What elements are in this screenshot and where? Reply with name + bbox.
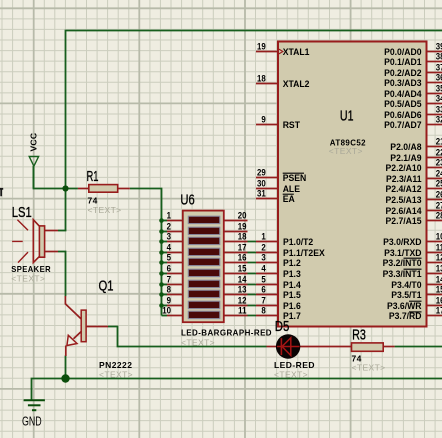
svg-text:P1.2: P1.2 (283, 258, 301, 268)
bargraph U6 pin 10 (162, 305, 184, 316)
svg-text:28: 28 (436, 210, 442, 221)
svg-text:34: 34 (436, 93, 442, 104)
svg-text:18: 18 (238, 231, 247, 242)
LED bargraph U6 body (183, 211, 224, 323)
svg-text:P3.2/INT0: P3.2/INT0 (383, 258, 422, 268)
bargraph U6 pin 15 (224, 263, 248, 274)
svg-text:P0.7/AD7: P0.7/AD7 (384, 120, 421, 130)
svg-text:R3: R3 (352, 328, 366, 344)
U1 pin 39 P0.0/AD0 (384, 41, 442, 57)
bargraph U6 pin 14 (224, 274, 248, 285)
U1 pin 25 P2.4/A12 (386, 178, 442, 194)
U1 pin 18 XTAL2 (256, 73, 309, 89)
wire bargraph pin 16 to U1 P1.2 (248, 262, 257, 264)
speaker LS1 (12, 220, 58, 263)
bargraph U6 pin 17 (224, 242, 248, 253)
svg-text:<TEXT>: <TEXT> (88, 205, 122, 215)
svg-text:1: 1 (261, 231, 265, 242)
U1 pin 16 P3.6/WR (387, 295, 442, 311)
svg-text:Q1: Q1 (99, 279, 114, 295)
wire bargraph pin 17 to U1 P1.1 (248, 252, 257, 254)
svg-text:36: 36 (436, 72, 442, 83)
U1 pin 5 P1.4 (256, 274, 301, 290)
wire VCC rail top-left to right edge (66, 31, 442, 231)
U1 pin 29 PSEN (256, 167, 306, 183)
svg-text:LS1: LS1 (12, 205, 32, 221)
svg-text:18: 18 (257, 73, 266, 84)
wire VCC to R1 node (34, 166, 78, 189)
U1 pin 35 P0.4/AD4 (384, 83, 442, 99)
svg-text:16: 16 (238, 252, 247, 263)
svg-text:EA: EA (283, 194, 295, 204)
svg-text:P0.3/AD3: P0.3/AD3 (384, 78, 421, 88)
U1 pin 17 P3.7/RD (389, 305, 442, 321)
U1 pin 11 P3.1/TXD (384, 242, 442, 258)
svg-text:P0.0/AD0: P0.0/AD0 (384, 47, 421, 57)
U1 pin 15 P3.5/T1 (391, 284, 442, 300)
transistor Q1 (65, 296, 108, 356)
U1 pin 38 P0.1/AD1 (384, 51, 442, 67)
svg-text:11: 11 (238, 305, 246, 316)
U1 pin 37 P0.2/AD2 (384, 62, 442, 78)
svg-text:32: 32 (436, 114, 442, 125)
svg-text:8: 8 (261, 305, 265, 316)
svg-text:<TEXT>: <TEXT> (329, 146, 363, 156)
wire Q1 emitter to ground rail (65, 356, 67, 379)
U1 pin 7 P1.6 (256, 295, 301, 311)
wire ground rail (32, 379, 442, 401)
overline INT0 (404, 257, 422, 259)
svg-text:1: 1 (167, 210, 171, 221)
svg-text:29: 29 (257, 167, 266, 178)
U1 pin 34 P0.5/AD5 (384, 93, 442, 109)
svg-text:12: 12 (436, 252, 442, 263)
svg-text:R1: R1 (87, 169, 99, 185)
svg-text:9: 9 (261, 114, 265, 125)
svg-text:74: 74 (88, 195, 98, 205)
wire bargraph pin 14 to U1 P1.4 (248, 284, 257, 286)
svg-text:P2.2/A10: P2.2/A10 (386, 163, 422, 173)
svg-text:8: 8 (167, 284, 171, 295)
svg-text:P2.7/A15: P2.7/A15 (386, 216, 422, 226)
svg-text:P3.4/T0: P3.4/T0 (391, 280, 421, 290)
U1 pin 13 P3.3/INT1 (383, 263, 442, 279)
svg-text:17: 17 (436, 305, 442, 316)
svg-text:13: 13 (436, 263, 442, 274)
svg-text:19: 19 (257, 41, 266, 52)
wire R3 to right edge (395, 346, 442, 348)
bargraph U6 pin 8 (159, 284, 183, 297)
svg-text:3: 3 (261, 252, 265, 263)
bargraph segments (188, 216, 220, 318)
svg-text:5: 5 (167, 252, 171, 263)
U1 pin 30 ALE (256, 178, 300, 194)
svg-text:<TEXT>: <TEXT> (274, 369, 308, 379)
U1 pin 2 P1.1/T2EX (256, 242, 325, 258)
U1 pin 36 P0.3/AD3 (384, 72, 442, 88)
U1 pin 32 P0.7/AD7 (384, 114, 442, 130)
U1 pin 22 P2.1/A9 (390, 147, 442, 163)
svg-text:4: 4 (261, 263, 265, 274)
bargraph U6 pin 5 (159, 252, 183, 265)
U1 pin 23 P2.2/A10 (386, 157, 442, 173)
wire bargraph pin 11 to U1 P1.7 (248, 315, 257, 317)
power symbol VCC (29, 157, 38, 189)
microcontroller U1 body (278, 42, 427, 327)
overline EA (283, 193, 294, 195)
bargraph U6 pin 6 (159, 263, 183, 276)
svg-text:P3.5/T1: P3.5/T1 (391, 290, 421, 300)
svg-text:P1.3: P1.3 (283, 269, 301, 279)
svg-text:P0.1/AD1: P0.1/AD1 (384, 57, 421, 67)
svg-text:P1.6: P1.6 (283, 301, 301, 311)
junction dot VCC/R1 node (62, 185, 68, 191)
svg-text:31: 31 (257, 188, 266, 199)
wire bargraph pin 15 to U1 P1.3 (248, 273, 257, 275)
U1 pin 9 RST (256, 114, 300, 130)
svg-text:ALE: ALE (283, 184, 300, 194)
svg-text:38: 38 (436, 51, 442, 62)
U1 pin 6 P1.5 (256, 284, 301, 300)
bargraph U6 pin 12 (224, 295, 248, 306)
svg-text:P1.7: P1.7 (283, 311, 301, 321)
svg-text:SPEAKER: SPEAKER (11, 264, 51, 274)
svg-text:<TEXT>: <TEXT> (181, 338, 215, 348)
svg-text:23: 23 (436, 157, 442, 168)
overline RD (409, 311, 422, 313)
svg-text:U6: U6 (180, 192, 194, 208)
bargraph U6 pin 4 (159, 242, 183, 255)
svg-text:P1.1/T2EX: P1.1/T2EX (283, 248, 325, 258)
svg-text:25: 25 (436, 178, 442, 189)
svg-text:20: 20 (238, 210, 247, 221)
svg-text:21: 21 (436, 136, 442, 147)
U1 pin 19 XTAL1 (256, 41, 309, 57)
bargraph U6 pin 20 (224, 210, 248, 221)
LED D5 (267, 334, 301, 358)
svg-text:13: 13 (238, 284, 247, 295)
U1 pin 26 P2.5/A13 (386, 189, 442, 205)
wire bargraph pin 18 to U1 P1.0 (248, 241, 257, 243)
bargraph U6 pin 16 (224, 252, 248, 263)
svg-text:26: 26 (436, 189, 442, 200)
svg-text:P0.5/AD5: P0.5/AD5 (384, 99, 421, 109)
label VCC (28, 133, 38, 152)
wire speaker bottom pin to Q1 collector (58, 252, 66, 297)
U1 pin 27 P2.6/A14 (386, 200, 442, 216)
U1 pin 14 P3.4/T0 (391, 274, 442, 290)
wire bargraph pin 12 to U1 P1.6 (248, 305, 257, 307)
svg-text:P0.4/AD4: P0.4/AD4 (384, 89, 421, 99)
bargraph U6 pin 11 (224, 305, 248, 316)
U1 pin 4 P1.3 (256, 263, 301, 279)
U1 pin 24 P2.3/A11 (386, 168, 442, 184)
U1 pin 12 P3.2/INT0 (383, 252, 442, 268)
svg-text:LED-BARGRAPH-RED: LED-BARGRAPH-RED (181, 328, 272, 338)
overline PSEN (283, 172, 304, 174)
svg-text:3: 3 (167, 231, 171, 242)
bargraph U6 pin 1 (159, 210, 183, 223)
svg-text:15: 15 (436, 284, 442, 295)
U1 pin 3 P1.2 (256, 252, 301, 268)
svg-text:XTAL1: XTAL1 (283, 47, 310, 57)
svg-text:GND: GND (22, 414, 42, 428)
svg-text:P1.5: P1.5 (283, 290, 301, 300)
bargraph U6 pin 13 (224, 284, 248, 295)
svg-text:15: 15 (238, 263, 247, 274)
bargraph U6 pin 18 (224, 231, 248, 242)
svg-text:P3.6/WR: P3.6/WR (387, 301, 422, 311)
svg-text:<TEXT>: <TEXT> (352, 362, 386, 372)
bargraph U6 pin 7 (159, 274, 183, 287)
svg-text:P2.5/A13: P2.5/A13 (386, 195, 422, 205)
bargraph U6 pin 19 (224, 221, 248, 232)
U1 pin 1 P1.0/T2 (256, 231, 313, 247)
svg-text:P0.2/AD2: P0.2/AD2 (384, 68, 421, 78)
svg-text:VCC: VCC (28, 133, 38, 152)
U1 pin 8 P1.7 (256, 305, 301, 321)
svg-text:P2.0/A8: P2.0/A8 (390, 142, 421, 152)
svg-text:10: 10 (436, 231, 442, 242)
svg-text:P1.4: P1.4 (283, 280, 301, 290)
U1 pin 10 P3.0/RXD (383, 231, 442, 247)
svg-text:<TEXT>: <TEXT> (99, 369, 133, 379)
svg-text:P3.0/RXD: P3.0/RXD (383, 237, 422, 247)
svg-text:P1.0/T2: P1.0/T2 (283, 237, 313, 247)
overline WR (409, 300, 422, 302)
U1 pin 21 P2.0/A8 (390, 136, 442, 152)
svg-text:10: 10 (162, 305, 171, 316)
ground symbol GND (24, 400, 45, 410)
wire R1 to bargraph anode rail (130, 189, 162, 316)
U1 pin 28 P2.7/A15 (386, 210, 442, 226)
svg-text:RST: RST (283, 120, 301, 130)
svg-text:P2.3/A11: P2.3/A11 (386, 174, 422, 184)
wire Q1 base to D5 anode (108, 327, 267, 347)
bargraph U6 pin 3 (159, 231, 183, 244)
svg-text:<TEXT>: <TEXT> (11, 274, 45, 284)
U1 pin 33 P0.6/AD6 (384, 104, 442, 120)
svg-text:P2.1/A9: P2.1/A9 (390, 153, 421, 163)
svg-text:XTAL2: XTAL2 (283, 79, 310, 89)
junction dot emitter/ground node (61, 374, 69, 382)
resistor R1 (78, 185, 130, 193)
svg-text:PSEN: PSEN (283, 173, 307, 183)
svg-text:6: 6 (167, 263, 171, 274)
svg-text:P3.3/INT1: P3.3/INT1 (383, 269, 422, 279)
U1 pin 31 EA (256, 188, 295, 204)
stray mark left edge (0, 188, 3, 196)
resistor R3 (300, 343, 395, 351)
svg-text:U1: U1 (340, 108, 354, 124)
svg-text:D5: D5 (275, 319, 290, 335)
svg-text:P0.6/AD6: P0.6/AD6 (384, 110, 421, 120)
bargraph U6 pin 2 (159, 221, 183, 234)
svg-text:P2.6/A14: P2.6/A14 (386, 206, 422, 216)
bargraph U6 pin 9 (159, 295, 183, 308)
wire speaker top pin to rail (58, 230, 66, 232)
wire bargraph pin 13 to U1 P1.5 (248, 294, 257, 296)
svg-text:P2.4/A12: P2.4/A12 (386, 184, 422, 194)
overline INT1 (404, 268, 422, 270)
svg-text:P3.1/TXD: P3.1/TXD (384, 248, 422, 258)
svg-text:6: 6 (261, 284, 265, 295)
